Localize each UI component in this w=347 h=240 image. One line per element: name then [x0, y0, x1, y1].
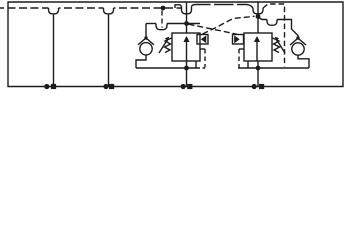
- node junction dot at 186.5,23.5: [184, 21, 189, 26]
- valve V1 pilot box with left triangle: [197, 35, 208, 45]
- node cup junction at x53.5 on pilot line A: [49, 8, 59, 14]
- node port dot pair 3 on bus: [181, 84, 186, 89]
- node cup junction at x108.5 on pilot line A: [104, 8, 114, 14]
- valve V2 spring zigzag: [273, 38, 280, 53]
- wire pilot line A right end rising to drain drop x284.5: [263, 4, 285, 67]
- wire line y23 from cup to past valve 1 vertical: [167, 23, 200, 25]
- node port dot pair 4 on bus: [252, 84, 257, 89]
- wire line E from dot to check valve 2: [258, 17, 267, 20]
- wire pilot line A mid dashed segment 2: [114, 7, 182, 9]
- node empty cup on line E at x272: [267, 20, 277, 26]
- valve V2 internal flow arrow up: [256, 42, 258, 61]
- valve V1 adjustment arrow: [159, 40, 168, 54]
- node port dot pair 1 on bus: [44, 84, 49, 89]
- wire main loop rectangle P line: [8, 2, 343, 87]
- valve V1 internal flow arrow up: [186, 42, 188, 61]
- node cup on line y23 at x161.5: [156, 24, 167, 30]
- wire vertical line from cup x108.5 to bottom bus: [108, 14, 110, 87]
- node cup hop at x186.5 on pilot line A: [182, 6, 192, 14]
- valve V2 adjustment arrow: [277, 40, 286, 54]
- node junction dot on pilot line A at x163: [161, 6, 166, 11]
- wire vertical line from cup x53.5 to bottom bus: [53, 14, 55, 87]
- node junction dot at 186.5,68: [184, 66, 189, 71]
- valve V2 pilot box with right triangle: [233, 35, 244, 45]
- valve V2 square envelope: [244, 33, 272, 61]
- node junction dot at 258,68: [256, 66, 261, 71]
- valve V1 square envelope: [172, 33, 200, 61]
- check valve CV1 top line: [145, 24, 147, 39]
- wire pilot line B dashed arc between valve verticals: [192, 5, 254, 9]
- check valve CV1 ball: [140, 43, 152, 55]
- check valve CV1 apex dot: [144, 36, 147, 39]
- wire drain line D y68 under valve 1: [136, 67, 196, 69]
- valve V1 spring zigzag: [165, 38, 172, 53]
- wire pilot line A mid dashed segment 1: [59, 7, 104, 9]
- check valve CV2 apex dot: [296, 36, 299, 39]
- wire check valve CV1 bottom jog to drain line: [136, 55, 146, 68]
- check valve CV1 seat wings: [138, 38, 154, 45]
- wire stub up at x248 to valve bottom: [247, 61, 249, 68]
- wire line E right part with corner down to check 2 apex: [277, 20, 298, 39]
- valve V2 drain stub and dashed drain: [239, 48, 244, 50]
- wire valve 2 bottom port line to bus: [257, 61, 259, 87]
- check valve CV2 seat wings: [290, 38, 306, 45]
- wire check valve 1 outlet line y23: [146, 23, 156, 25]
- wire valve 1 bottom port line to bus: [186, 61, 188, 87]
- wire pilot line A left dashed segment: [0, 7, 49, 9]
- wire dashed pilot drop from dot x163: [161, 11, 163, 28]
- wire stub up at x196 to valve bottom: [195, 61, 197, 68]
- wire small raised jog of pilot line A before valve 1 vertical: [175, 5, 182, 8]
- node port dot pair 2 on bus: [103, 84, 108, 89]
- wire check valve CV2 bottom jog to drain line: [298, 55, 309, 68]
- wire valve 2 top port line: [257, 2, 259, 33]
- wire valve 1 top port line: [186, 2, 188, 33]
- wire dashed cross pilot line from valve V1 pilot box to node at 258,16.5: [203, 16, 255, 34]
- valve V1 drain stub and dashed drain: [200, 48, 205, 50]
- check valve CV2 ball: [292, 43, 304, 55]
- wire dashed cross pilot line from node at 186.5,23.5 to valve V2 pilot box: [189, 24, 238, 34]
- node cup hop at x258 on pilot line A: [253, 8, 263, 14]
- node junction dot at 258,16.5: [256, 14, 261, 19]
- wire drain line F y68 under valve 2: [238, 67, 309, 69]
